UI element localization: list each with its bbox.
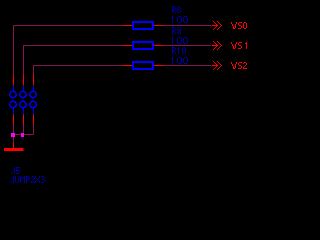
label R8 value 100	[171, 16, 188, 23]
ground symbol stem	[13, 143, 15, 149]
jumper J5 top pin 1 stub	[13, 85, 15, 92]
net label VS1	[231, 42, 247, 49]
off-page connector VS2 chevron	[213, 61, 222, 70]
off-page connector VS1 chevron	[213, 41, 222, 50]
net label VS2	[231, 62, 247, 69]
jumper J5 bottom pin 1 stub	[13, 108, 15, 115]
jumper J5 top pin 3	[33, 75, 35, 86]
label R10 reference	[172, 47, 186, 54]
label R10 value 100	[171, 57, 188, 64]
label R9 value 100	[171, 37, 188, 44]
ground symbol bar	[4, 148, 24, 151]
jumper J5 top circle 1	[10, 91, 16, 97]
wire jumper pin to ground bus	[23, 125, 25, 135]
jumper J5 top circle 3	[30, 91, 36, 97]
wire net VS0 right segment	[163, 25, 212, 27]
jumper J5 bottom circle 2	[20, 101, 26, 107]
jumper J5 top pin 2 stub	[23, 85, 25, 92]
resistor R10 pin 2	[154, 65, 163, 67]
jumper J5 bottom circle 3	[30, 101, 36, 107]
off-page connector VS2 stub	[212, 65, 217, 67]
jumper J5 top pin 3 stub	[33, 85, 35, 92]
label R9 reference	[172, 27, 181, 34]
wire to ground symbol	[13, 135, 15, 143]
label J5 value JUMP2X3	[10, 176, 45, 183]
resistor R8 pin 1	[123, 25, 132, 27]
wire jumper pin to ground bus	[33, 125, 35, 135]
junction node at col1/ground bus	[11, 133, 15, 137]
off-page connector VS1 stub	[212, 45, 217, 47]
wire net VS1 right segment	[163, 45, 212, 47]
jumper J5 top pin 1	[13, 75, 15, 86]
jumper J5 bottom pin 1	[13, 115, 15, 126]
wire net VS2 left segment	[34, 66, 124, 75]
wire net VS2 right segment	[163, 65, 212, 67]
label J5 reference	[11, 167, 20, 174]
off-page connector VS0 chevron	[213, 21, 222, 30]
net label VS0	[231, 22, 247, 29]
jumper J5 bottom pin 3	[33, 115, 35, 126]
resistor R8 body	[133, 22, 153, 29]
wire ground bus horizontal	[14, 134, 34, 136]
resistor R9 pin 1	[123, 45, 132, 47]
resistor R10 pin 1	[123, 65, 132, 67]
resistor R9 body	[133, 42, 153, 49]
off-page connector VS0 stub	[212, 25, 217, 27]
wire net VS0 left segment	[14, 26, 124, 75]
jumper J5 bottom pin 2	[23, 115, 25, 126]
label R8 reference	[172, 6, 181, 13]
jumper J5 top circle 2	[20, 91, 26, 97]
resistor R9 pin 2	[154, 45, 163, 47]
jumper J5 bottom pin 2 stub	[23, 108, 25, 115]
wire jumper pin to ground bus	[13, 125, 15, 135]
jumper J5 top pin 2	[23, 75, 25, 86]
resistor R10 body	[133, 62, 153, 69]
junction node at col2/ground bus	[21, 133, 24, 137]
jumper J5 bottom pin 3 stub	[33, 108, 35, 115]
jumper J5 bottom circle 1	[10, 101, 16, 107]
resistor R8 pin 2	[154, 25, 163, 27]
wire net VS1 left segment	[24, 46, 124, 75]
